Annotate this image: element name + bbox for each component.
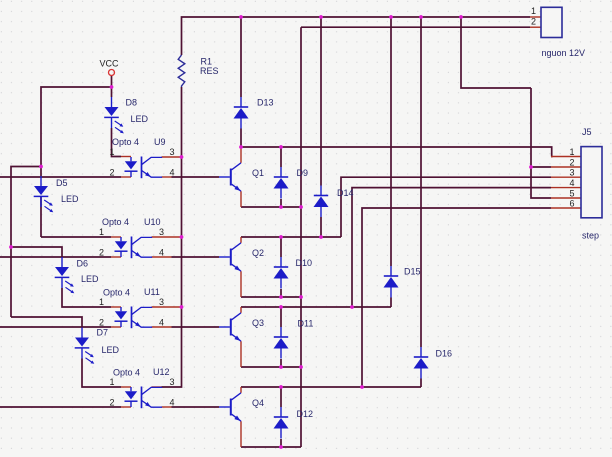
wire VCC bus left (11, 87, 112, 317)
wire Q4 emitter rail (241, 446, 301, 448)
svg-text:3: 3 (170, 147, 175, 157)
diode D11 (274, 319, 314, 359)
svg-text:1: 1 (110, 147, 115, 157)
pin Q4 collector (240, 387, 242, 393)
transistor Q2 (219, 243, 264, 271)
svg-text:2: 2 (570, 158, 575, 168)
wire phase D rail (241, 386, 421, 388)
svg-text:1: 1 (99, 227, 104, 237)
svg-text:3: 3 (570, 168, 575, 178)
svg-text:D5: D5 (56, 178, 68, 188)
svg-text:LED: LED (102, 345, 120, 355)
svg-text:J5: J5 (582, 127, 592, 137)
power port VCC (100, 59, 120, 76)
wire VCC top rail from R1 to nguon pin 1 (182, 17, 531, 55)
svg-text:1: 1 (110, 377, 115, 387)
pin Q2 collector (240, 237, 242, 243)
opto-coupler U12 (110, 367, 175, 408)
opto-coupler U11 (99, 287, 164, 328)
wire U10 pin 4 to Q2 base (172, 256, 220, 258)
wire control input 3 to U11 pin 2 (0, 326, 111, 328)
svg-text:D14: D14 (337, 188, 354, 198)
junction VCC bus D5 (39, 165, 43, 169)
wire U11 pin 4 to Q3 base (172, 326, 220, 328)
junction R1 rail U11 (180, 305, 184, 309)
wire D6 cathode to U11 pin 1 (62, 288, 111, 307)
pin J5 6 (551, 207, 581, 209)
pin J5 5 (551, 197, 581, 199)
svg-text:D11: D11 (298, 319, 314, 329)
pin J5 4 (551, 187, 581, 189)
wire phase A rail Q1 collector to J5 pin 1 (241, 147, 552, 157)
diode D12 (274, 407, 314, 439)
svg-text:4: 4 (159, 248, 164, 258)
svg-text:U11: U11 (144, 287, 160, 297)
svg-text:Opto 4: Opto 4 (103, 288, 130, 298)
junction top rail D14 (319, 15, 323, 19)
wire VCC port to junction (111, 76, 113, 87)
wire D13 column (240, 17, 242, 147)
svg-text:5: 5 (570, 189, 575, 199)
pin U12 2 (121, 406, 131, 408)
pin Q3 emitter (240, 341, 242, 367)
pin Q4 emitter (240, 421, 242, 447)
svg-text:3: 3 (170, 377, 175, 387)
svg-text:D15: D15 (404, 267, 421, 277)
svg-text:2: 2 (99, 248, 104, 258)
junction top rail D16 (419, 15, 423, 19)
svg-text:4: 4 (159, 318, 164, 328)
opto-coupler U9 (110, 137, 175, 178)
diode D15 (384, 266, 421, 298)
LED D5 (34, 176, 79, 212)
wire J5 pin 3 to phase B rail (341, 177, 551, 237)
junction phase D pin6 (360, 385, 364, 389)
junction D14 anode (319, 235, 323, 239)
junction D12 anode (279, 445, 283, 449)
junction D9 anode (279, 205, 283, 209)
LED D6 (55, 257, 99, 293)
wire U12 pin 4 to Q4 base (172, 406, 220, 408)
svg-text:D10: D10 (296, 258, 313, 268)
wire junction to D6 (11, 247, 62, 257)
svg-text:4: 4 (170, 398, 175, 408)
junction ground Q2 emitter (299, 295, 303, 299)
svg-text:D16: D16 (436, 349, 453, 359)
svg-text:D9: D9 (297, 168, 309, 178)
pin Q1 collector (240, 147, 242, 163)
junction VCC port (110, 85, 114, 89)
resistor R1 (178, 55, 218, 87)
svg-text:D8: D8 (126, 98, 138, 108)
svg-text:4: 4 (570, 178, 575, 188)
pin Q3 collector (240, 307, 242, 313)
svg-text:1: 1 (570, 147, 575, 157)
wire D10 column (280, 237, 282, 297)
junction ground Q3 emitter (299, 365, 303, 369)
pin J5 3 (551, 176, 581, 178)
svg-text:U12: U12 (153, 367, 170, 377)
pin U10 2 (111, 256, 121, 258)
junction R1 rail U9 (180, 155, 184, 159)
wire J5 pin 6 to phase D rail (362, 208, 551, 387)
wire D8 cathode to U9 pin 1 (112, 128, 122, 157)
junction D9 cathode (279, 145, 283, 149)
junction D11 cathode (279, 305, 283, 309)
junction J5 pin 2 tap (529, 165, 533, 169)
wire VCC branch to center taps: rail to J5 (461, 17, 531, 88)
junction D11 anode (279, 365, 283, 369)
svg-text:2: 2 (110, 398, 115, 408)
pin U11 4 (152, 326, 172, 328)
svg-text:Q2: Q2 (252, 248, 264, 258)
pin U11 3 (152, 306, 182, 308)
wire bus to D7 (11, 317, 82, 328)
pin U10 4 (152, 256, 172, 258)
wire phase B rail (241, 236, 341, 238)
wire Q2 emitter rail (241, 296, 301, 298)
wire J5 pin 4 to phase C rail (352, 188, 551, 307)
svg-text:1: 1 (531, 6, 536, 16)
wire D8 anode feed (111, 87, 113, 97)
diode D16 (414, 347, 453, 379)
junction D10 anode (279, 295, 283, 299)
wire Q3 emitter rail (241, 366, 301, 368)
svg-text:D13: D13 (257, 98, 274, 108)
wire control input 2 to U10 pin 2 (0, 256, 111, 258)
pin U12 3 (152, 386, 162, 388)
svg-text:2: 2 (110, 168, 115, 178)
pin U10 1 (111, 236, 121, 238)
svg-text:nguon 12V: nguon 12V (542, 48, 586, 58)
pin U9 4 (162, 176, 172, 178)
pin J5 2 (551, 166, 581, 168)
svg-text:Opto 4: Opto 4 (113, 368, 140, 378)
svg-text:3: 3 (159, 297, 164, 307)
svg-text:Opto 4: Opto 4 (102, 217, 129, 227)
junction phase C pin4 (350, 305, 354, 309)
diode D13 (234, 97, 274, 129)
svg-text:R1: R1 (201, 57, 213, 67)
LED D7 (75, 328, 120, 364)
pin U10 3 (152, 236, 182, 238)
junction top rail D15 (389, 15, 393, 19)
wire ground bus vertical (300, 27, 302, 447)
wire center tap vertical to J5 pin 5 (531, 88, 551, 198)
wire D9 column (280, 147, 282, 207)
wire D14 column (320, 17, 322, 237)
svg-text:LED: LED (61, 194, 79, 204)
junction ground Q1 emitter (299, 205, 303, 209)
wire J5 pin 2 branch (531, 166, 551, 168)
wire D15 column (390, 17, 392, 307)
svg-text:6: 6 (570, 199, 575, 209)
pin U12 1 (121, 386, 131, 388)
svg-text:U10: U10 (144, 217, 161, 227)
wire D5 leads (40, 167, 42, 238)
junction D10 cathode (279, 235, 283, 239)
LED D8 (104, 97, 148, 133)
pin Q1 emitter (240, 191, 242, 207)
svg-text:LED: LED (81, 274, 99, 284)
svg-text:4: 4 (170, 168, 175, 178)
wire R1 rail down the opto collectors (162, 87, 182, 387)
connector J5 step (570, 127, 603, 241)
pin U9 2 (121, 176, 131, 178)
svg-text:2: 2 (531, 16, 536, 26)
svg-text:Q3: Q3 (252, 318, 264, 328)
junction D12 cathode (279, 385, 283, 389)
transistor Q4 (219, 393, 264, 421)
wire Q1 emitter rail (241, 206, 301, 208)
svg-text:D7: D7 (97, 328, 109, 338)
pin U12 4 (162, 406, 172, 408)
wire U9 pin 4 to Q1 base (172, 176, 220, 178)
diode D14 (314, 186, 354, 218)
svg-text:Q1: Q1 (252, 168, 264, 178)
wire control input 4 to U12 pin 2 (0, 406, 121, 408)
junction Q1 collector (239, 145, 243, 149)
pin nguon 1 (530, 16, 541, 18)
wire D5 to U10 pin 1 (41, 236, 111, 238)
opto-coupler U10 (99, 217, 164, 258)
svg-text:Opto 4: Opto 4 (112, 137, 139, 147)
svg-text:RES: RES (200, 66, 219, 76)
junction R1 rail U10 (180, 235, 184, 239)
wire D7 cathode to U12 pin 1 (82, 359, 121, 388)
wire nguon pin 2 to ground bus (301, 26, 530, 28)
wire D16 column (420, 17, 422, 387)
svg-text:1: 1 (99, 297, 104, 307)
connector nguon 12V (531, 6, 585, 58)
pin J5 1 (551, 156, 581, 158)
svg-text:step: step (582, 231, 599, 241)
svg-text:Q4: Q4 (252, 398, 264, 408)
wire control input 1 to U9 pin 2 (0, 176, 121, 178)
svg-text:D6: D6 (77, 259, 89, 269)
pin U11 2 (111, 326, 121, 328)
junction top rail D13 (239, 15, 243, 19)
svg-text:D12: D12 (297, 409, 314, 419)
pin U9 1 (121, 156, 131, 158)
pin U11 1 (111, 306, 121, 308)
pin Q2 emitter (240, 271, 242, 297)
junction top rail center tap (459, 15, 463, 19)
svg-text:LED: LED (131, 114, 149, 124)
svg-text:2: 2 (99, 318, 104, 328)
wire D12 column (280, 387, 282, 447)
transistor Q3 (219, 313, 264, 341)
junction VCC bus D6 (9, 245, 13, 249)
wire D11 column (280, 307, 282, 367)
pin nguon 2 (530, 26, 541, 28)
svg-text:U9: U9 (154, 137, 166, 147)
svg-text:3: 3 (159, 227, 164, 237)
pin U9 3 (162, 156, 182, 158)
diode D10 (274, 257, 313, 289)
transistor Q1 (219, 163, 264, 191)
svg-text:VCC: VCC (100, 59, 120, 69)
wire phase C rail (241, 306, 391, 308)
diode D9 (274, 167, 309, 199)
